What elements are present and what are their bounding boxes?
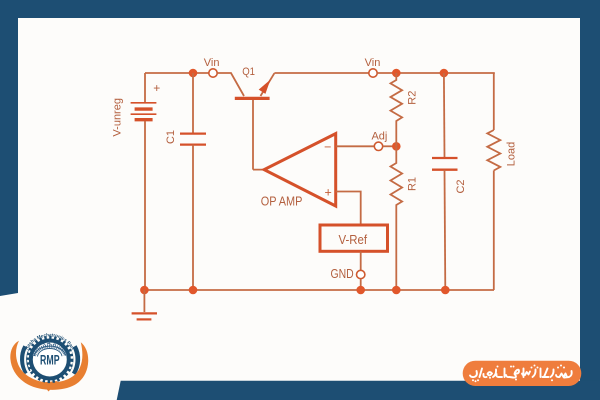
- svg-text:R2: R2: [406, 91, 418, 105]
- svg-text:Q1: Q1: [242, 66, 255, 78]
- junction dot top at C1: [189, 69, 198, 78]
- frame top bar: [0, 0, 600, 18]
- frame right bar: [580, 0, 600, 400]
- load branch bottom lead: [493, 171, 495, 291]
- logo RMP emblem: [10, 332, 88, 391]
- node Adj (open terminal circle): [374, 142, 382, 150]
- svg-text:+: +: [325, 185, 332, 199]
- ground symbol: [132, 313, 157, 319]
- svg-text:Adj: Adj: [371, 130, 387, 142]
- svg-text:RMP: RMP: [40, 353, 60, 368]
- junction dot bottom at GND: [356, 286, 365, 295]
- junction dot Adj: [392, 142, 401, 151]
- wire Vout rail to right corner: [377, 72, 495, 74]
- capacitor C2 plates: [432, 158, 458, 170]
- resistor R2: [391, 73, 403, 146]
- logo gear ring: [31, 341, 69, 379]
- transistor Q1 emitter arrow: [259, 80, 271, 94]
- junction dot bottom at R1: [392, 286, 401, 295]
- wire Adj to R1/R2 junction: [383, 145, 397, 147]
- junction dot bottom at battery/ground: [140, 286, 149, 295]
- node Vin (input, open terminal circle): [209, 69, 217, 77]
- company name pill (Persian ribbon): [463, 361, 582, 386]
- svg-text:V-unreg: V-unreg: [112, 98, 124, 137]
- resistor R1: [391, 146, 403, 290]
- wire Q1 base to op-amp output: [253, 100, 265, 170]
- Persian company text (drawn strokes): [470, 369, 572, 378]
- wire Vin to Q1 collector: [217, 73, 244, 96]
- frame bottom bar: [117, 381, 600, 400]
- node Vin (output rail, open terminal circle): [369, 69, 377, 77]
- capacitor C2 bottom lead: [444, 170, 447, 290]
- logo blue side crescents: [23, 347, 27, 373]
- svg-text:−: −: [324, 140, 331, 154]
- capacitor C2 top lead: [443, 73, 446, 158]
- transistor Q1 base bar: [235, 97, 270, 100]
- frame left bar: [0, 0, 18, 296]
- logo swoosh tail: [42, 381, 59, 392]
- junction dot bottom at C2: [441, 286, 450, 295]
- svg-text:GND: GND: [331, 267, 354, 281]
- battery V-unreg plates: [131, 103, 157, 120]
- logo orange swoosh: [10, 341, 88, 390]
- ground stub wire: [143, 290, 145, 312]
- transistor Q1 emitter lead: [261, 73, 275, 96]
- wire op-amp non-inverting input to V-Ref: [336, 192, 361, 226]
- wire GND to bottom rail: [360, 279, 362, 290]
- svg-text:C1: C1: [165, 130, 177, 144]
- logo arch (bridge): [34, 346, 65, 356]
- logo Persian script squiggle: [41, 340, 56, 345]
- svg-text:Load: Load: [505, 142, 517, 166]
- svg-text:R1: R1: [406, 177, 418, 191]
- svg-text:V-Ref: V-Ref: [339, 232, 368, 247]
- junction dot top at C2: [440, 69, 449, 78]
- V-Ref box: [320, 225, 388, 251]
- op-amp U1 triangle: [264, 134, 336, 206]
- svg-text:+: +: [153, 81, 160, 95]
- capacitor C1 plates: [180, 134, 206, 145]
- capacitor C1 bottom lead: [192, 145, 194, 290]
- wire V-Ref to GND: [360, 251, 362, 270]
- node GND (open terminal circle): [357, 270, 365, 278]
- svg-text:C2: C2: [455, 179, 467, 193]
- wire bottom rail: [144, 289, 494, 291]
- wire Q1 emitter to Vout rail: [274, 72, 368, 74]
- junction dot top at R2: [392, 69, 401, 78]
- logo inner white disc: [34, 343, 67, 376]
- resistor Load: [487, 130, 500, 171]
- capacitor C1 top lead: [192, 73, 194, 134]
- junction dot bottom at C1: [189, 286, 198, 295]
- wire top rail left (battery to Vin node): [145, 72, 209, 74]
- svg-text:Vin: Vin: [365, 57, 381, 69]
- svg-text:Vin: Vin: [204, 57, 220, 69]
- wire op-amp inverting input to Adj: [336, 145, 374, 147]
- battery V-unreg bottom lead: [144, 121, 146, 290]
- svg-text:OP AMP: OP AMP: [261, 193, 303, 208]
- load branch top lead: [493, 73, 495, 130]
- battery V-unreg top lead: [144, 73, 146, 102]
